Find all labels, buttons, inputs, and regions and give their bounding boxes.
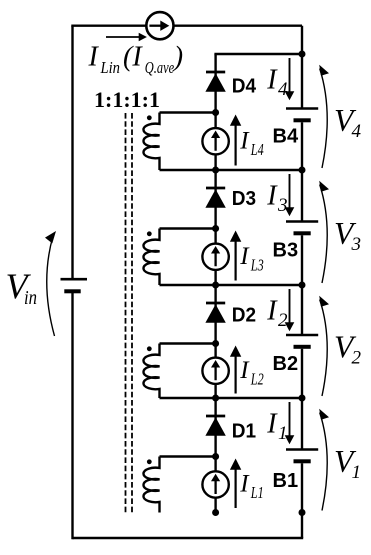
svg-text:L2: L2 (250, 369, 264, 388)
svg-text:): ) (172, 42, 183, 73)
current source Q (I_Lin) (146, 12, 173, 39)
arrow I_Lin direction (106, 36, 140, 38)
arrow I_L1 (235, 469, 237, 508)
node branch-loop cell 2 (212, 340, 219, 347)
inductor winding L1 (143, 457, 159, 513)
polarity dot winding L4 (147, 115, 152, 120)
svg-text:D1: D1 (232, 419, 256, 442)
wire branch cell 1 (214, 398, 216, 513)
node branch-bottom cell 3 (212, 282, 219, 289)
arc arrow V_1 (320, 413, 328, 511)
svg-text:I: I (266, 181, 278, 212)
svg-text:2: 2 (352, 348, 362, 369)
wire winding loop top cell 3 (160, 227, 216, 229)
diode D1 (206, 415, 225, 418)
svg-text:D4: D4 (232, 74, 257, 97)
node rail-top cell 2 (299, 282, 306, 289)
svg-text:2: 2 (278, 310, 288, 331)
svg-text:1: 1 (352, 462, 362, 483)
node branch-loop cell 1 (212, 453, 219, 460)
wire left rail (71, 26, 73, 280)
node rail-top cell 4 (299, 51, 306, 58)
node rail-top cell 3 (299, 167, 306, 174)
arrow I_3 (289, 174, 291, 209)
wire branch cell 4 (214, 54, 216, 170)
diode D3 (206, 187, 225, 190)
wire cell 3 top (160, 169, 303, 171)
arrow I_1 (289, 402, 291, 437)
wire cell 4 top (214, 53, 302, 55)
svg-text:D3: D3 (232, 187, 256, 210)
battery B3 (286, 220, 318, 223)
wire winding loop top cell 1 (160, 455, 216, 457)
svg-text:L3: L3 (250, 255, 264, 274)
current source L2 (202, 358, 228, 384)
node rail-top cell 1 (299, 395, 306, 402)
battery B2 (286, 334, 318, 337)
wire winding loop top cell 2 (160, 342, 216, 344)
svg-text:Q.ave: Q.ave (145, 58, 175, 77)
diode D4 (206, 71, 225, 74)
transformer core dashed line 2 (131, 113, 133, 512)
inductor winding L4 (143, 113, 159, 171)
svg-text:I: I (266, 65, 278, 96)
node rail bottom (299, 509, 306, 516)
arrow I_4 (289, 58, 291, 93)
svg-text:B3: B3 (273, 238, 299, 261)
battery Vin source (61, 278, 88, 281)
arc arrow V_3 (320, 185, 328, 284)
wire bottom (73, 537, 304, 539)
svg-text:in: in (24, 287, 37, 309)
svg-text:L4: L4 (250, 140, 264, 159)
svg-text:3: 3 (351, 234, 362, 255)
battery B4 (286, 107, 318, 110)
diode D2 (206, 302, 225, 305)
wire right rail (301, 26, 303, 109)
inductor winding L2 (143, 344, 159, 399)
svg-text:Lin: Lin (100, 58, 120, 77)
svg-text:I: I (266, 296, 278, 327)
svg-text:B2: B2 (273, 352, 299, 375)
svg-text:3: 3 (277, 195, 288, 216)
arrow I_L4 (235, 125, 237, 166)
wire branch cell 2 (214, 285, 216, 398)
arc arrow V_2 (320, 300, 328, 397)
arrow I_L3 (235, 241, 237, 281)
svg-text:B4: B4 (273, 124, 299, 147)
svg-text:4: 4 (278, 79, 288, 100)
wire cell 2 top (160, 284, 303, 286)
svg-text:B1: B1 (273, 469, 299, 492)
node branch-bottom cell 4 (212, 167, 219, 174)
polarity dot winding L1 (147, 459, 152, 464)
arrow I_L2 (235, 356, 237, 394)
inductor winding L3 (143, 229, 159, 286)
svg-text:D2: D2 (232, 304, 256, 327)
battery B1 (286, 448, 318, 451)
svg-text:L1: L1 (250, 483, 264, 502)
node branch-loop cell 3 (212, 225, 219, 232)
polarity dot winding L3 (147, 231, 152, 236)
transformer core dashed line 1 (125, 113, 127, 512)
polarity dot winding L2 (147, 346, 152, 351)
node branch-loop cell 4 (212, 109, 219, 116)
current source L4 (202, 128, 228, 154)
arc arrow V_4 (320, 69, 328, 169)
arrow I_2 (289, 289, 291, 324)
wire top (71, 25, 302, 27)
svg-text:4: 4 (352, 121, 362, 142)
wire branch cell 3 (214, 170, 216, 285)
node branch-bottom cell 1 (212, 509, 219, 516)
current source L1 (202, 471, 228, 497)
wire winding loop top cell 4 (160, 111, 216, 113)
arc arrow Vin (47, 238, 55, 337)
current source L3 (202, 244, 228, 270)
svg-text:I: I (266, 409, 278, 440)
wire cell 1 top (160, 397, 303, 399)
svg-text:1:1:1:1: 1:1:1:1 (94, 87, 160, 112)
node branch-bottom cell 2 (212, 395, 219, 402)
svg-text:(I: (I (123, 42, 143, 73)
svg-text:I: I (88, 42, 100, 73)
label I_Lin (I_Q.ave) (88, 42, 184, 77)
svg-text:1: 1 (278, 423, 288, 444)
